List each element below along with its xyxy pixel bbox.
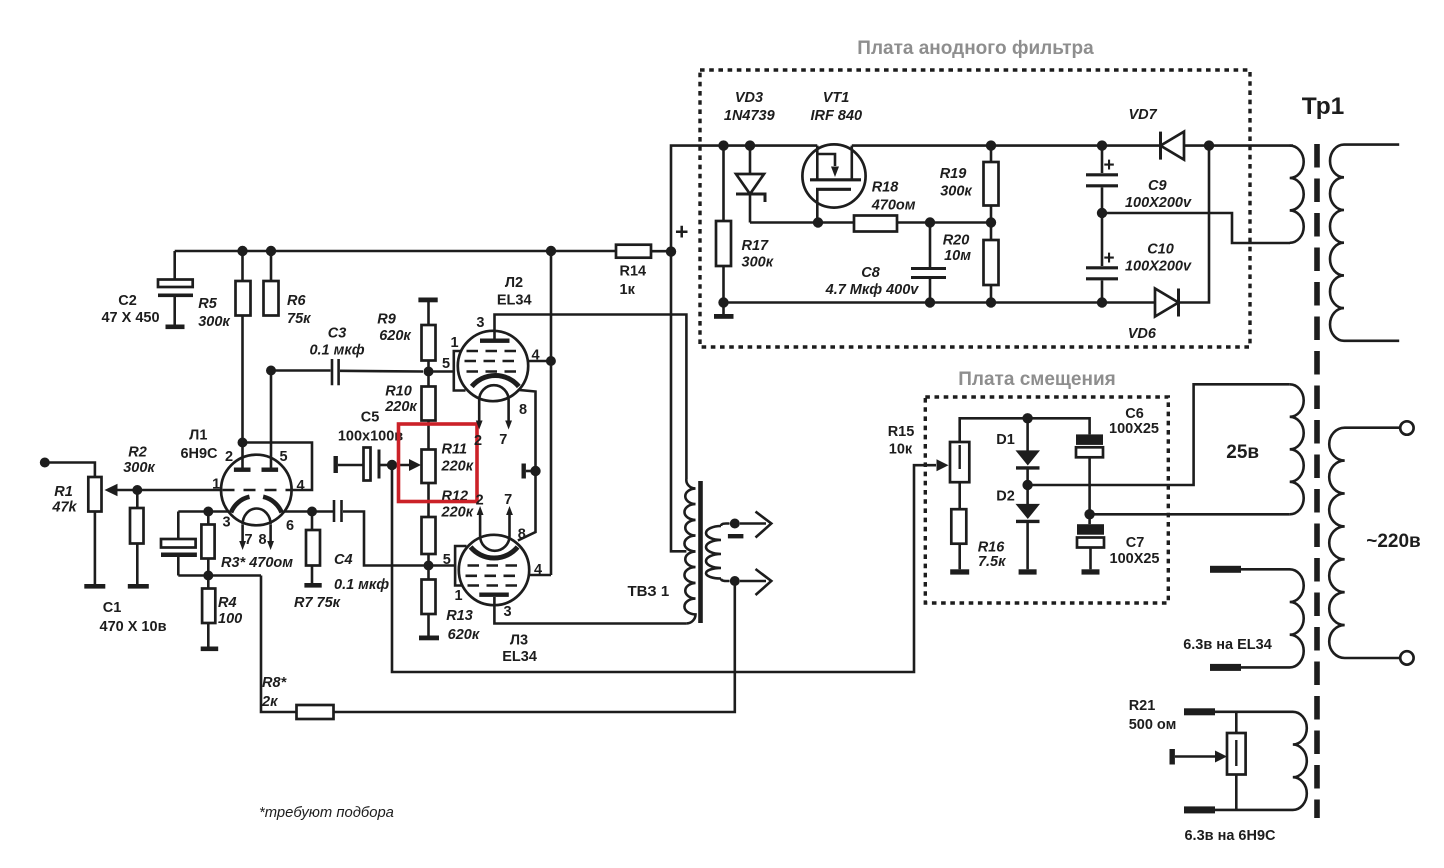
wire B+ top rail [175,250,616,253]
transformer Tp1 core (dashed) [1314,144,1320,818]
Tp1 mains primary winding (top right) [1330,145,1399,341]
svg-text:VD6: VD6 [1128,326,1157,342]
svg-text:R1: R1 [54,484,73,500]
svg-text:4: 4 [296,478,304,494]
svg-text:R21: R21 [1129,698,1156,714]
wire bias feed from C5 junction down and right [392,465,936,672]
svg-text:R15: R15 [888,424,915,440]
svg-text:C9: C9 [1148,178,1167,194]
bias board dashed box [925,397,1168,603]
svg-text:3: 3 [476,315,484,331]
svg-text:R13: R13 [446,608,473,624]
ground (R4) [201,647,219,652]
svg-text:ТВЗ 1: ТВЗ 1 [628,583,670,600]
grid bracket (L3 pins 1/5) [455,546,466,586]
svg-text:R8*: R8* [262,675,288,691]
svg-text:10м: 10м [944,248,971,264]
diode D2 [1026,485,1029,505]
ground (D2) [1019,569,1037,574]
MOSFET VT1 [802,144,865,207]
svg-text:300к: 300к [123,460,155,476]
svg-text:100: 100 [218,611,242,627]
wire C3 to R9/R10 junction [340,369,423,372]
svg-text:100X200v: 100X200v [1125,195,1192,211]
node rail/R17 [718,140,728,150]
svg-text:R18: R18 [872,180,900,196]
output arrow bottom [740,580,766,583]
wire board bottom rail [724,301,1156,304]
potentiometer R15 [950,442,969,482]
anode filter board dashed box [700,70,1250,347]
polarity bar below node [728,534,744,538]
svg-text:Плата смещения: Плата смещения [958,369,1115,390]
cathode arc (L3) [471,547,518,558]
ground (R1) [84,584,105,589]
svg-text:R17: R17 [742,238,770,254]
terminal circle ~220в bottom [1400,651,1413,664]
capacitor C7 (electrolytic) [1088,514,1091,524]
wire C5 terminal to plate [338,464,364,467]
node rail/R6 [266,246,276,256]
svg-text:300к: 300к [198,314,230,330]
terminal circle ~220в top [1400,421,1413,434]
node D1 top [1022,413,1032,423]
svg-text:7: 7 [245,532,253,548]
wire grid lead to L3 bracket [429,564,456,567]
svg-text:6.3в на 6Н9С: 6.3в на 6Н9С [1184,828,1276,844]
wire B+ riser to anode board [671,146,700,252]
svg-text:0.1 мкф: 0.1 мкф [334,577,389,593]
svg-text:R5: R5 [198,296,217,312]
wire R8 to secondary bottom [334,581,735,712]
highlight red box around R11/R12 [399,424,478,502]
svg-text:*требуют подбора: *требуют подбора [259,805,394,821]
capacitor C1 (electrolytic) [177,512,180,540]
node C10/bottom rail [1097,297,1107,307]
resistor R7 [311,512,314,531]
wire cathode pin 3 lead [178,510,228,513]
ground (board) [714,314,734,319]
svg-text:VD3: VD3 [735,90,763,106]
svg-text:6: 6 [286,518,294,534]
wire arrow into R15 [937,459,949,471]
svg-text:EL34: EL34 [497,292,532,308]
grid bracket (L2 pins 1/5) [454,351,466,391]
ground (R2) [128,584,149,589]
svg-text:100x100в: 100x100в [338,429,403,445]
R21 wiper terminal bar [1170,749,1175,765]
capacitor C3 [332,359,339,385]
svg-text:R2: R2 [128,445,147,461]
wire R11 wiper arrow [392,464,410,467]
wire midpoint to HV winding bottom [1102,213,1290,243]
wire midpoint to 25в winding bottom [1090,513,1290,516]
wire pin 8 lead (L2) [518,390,536,471]
node bottom rail/R17 [718,297,728,307]
Tp1 ~220в winding [1329,428,1400,658]
resistor R14 [616,245,651,258]
capacitor C5 (electrolytic) [364,448,371,481]
wire screen rail x=551 [550,251,553,575]
svg-text:~220в: ~220в [1366,531,1420,552]
zener diode VD3 [749,146,752,174]
capacitor C8 [929,223,932,268]
svg-text:C3: C3 [328,326,347,342]
wire L3 anode to output transformer [494,597,686,624]
node rail/R5 [237,246,247,256]
svg-text:47k: 47k [51,500,77,516]
svg-text:+: + [1104,248,1115,269]
heater dome (L1) [243,509,271,525]
node junction R12/R13/C4/grid L3 [424,561,434,571]
terminal bar 6.3в 6Н9С bottom [1184,806,1215,813]
svg-text:620к: 620к [379,328,411,344]
resistor R16 [958,482,961,509]
svg-text:8: 8 [519,402,527,418]
heater pin 8 arrow [269,525,272,542]
R21 wiper arrow [1175,755,1216,758]
svg-text:1N4739: 1N4739 [724,108,775,124]
resistor R18 [854,216,897,232]
diode VD6 [1155,289,1179,317]
svg-text:7: 7 [499,432,507,448]
svg-text:R14: R14 [620,264,647,280]
grid dashed rows (L2) [467,350,522,353]
svg-text:EL34: EL34 [502,649,537,665]
node rail/C9 [1097,140,1107,150]
wire feedback: cathode junction down to R8 [261,576,297,713]
node R18/C8 [925,217,935,227]
resistor R6 [270,251,273,281]
capacitor C9 (polarized) [1101,146,1104,173]
wire board top rail [700,144,1293,147]
wire TB3 secondary top [721,524,730,527]
heater dome (L2) [479,385,508,400]
capacitor C10 (polarized) [1101,213,1104,266]
svg-text:VD7: VD7 [1128,107,1157,123]
node secondary top [730,519,740,529]
anode bar pin 2 (L1) [234,468,251,472]
svg-text:C2: C2 [118,293,137,309]
node input terminal [40,458,50,468]
node rail/R19 [986,140,996,150]
wire pin 8 lead (L3) [518,471,536,541]
svg-text:C1: C1 [103,600,122,616]
transformer TB3 core [698,481,703,623]
node junction C5/R11 wiper/bias [387,460,397,470]
svg-text:470ом: 470ом [871,198,916,214]
capacitor C4 [334,500,342,522]
svg-text:100X200v: 100X200v [1125,259,1192,275]
node C9/C10 midpoint [1097,208,1107,218]
wire L2 anode to output transformer [495,315,687,480]
wire B+ center tap to TB3 [671,252,686,552]
wire grid lead pin1 to wiper junction [137,489,221,492]
terminal bar (cathode test point) [522,464,526,479]
svg-text:C6: C6 [1125,406,1144,422]
svg-text:0.1 мкф: 0.1 мкф [309,343,364,359]
svg-text:D2: D2 [996,489,1015,505]
cathode arc (L2) [472,375,519,386]
node junction R6/C3 [266,366,276,376]
wire TB3 secondary bottom [721,579,730,582]
wire R5 to pin 2 [241,443,244,468]
diode D1 [1026,418,1029,451]
resistor R17 [722,146,725,221]
svg-text:R3* 470ом: R3* 470ом [221,555,293,571]
heater dome (L3) [480,536,509,551]
heater pin 2 arrow (L3) [479,514,482,536]
svg-text:6Н9С: 6Н9С [180,446,218,462]
svg-text:C10: C10 [1147,242,1174,258]
svg-text:100X25: 100X25 [1110,551,1160,567]
svg-text:Плата анодного фильтра: Плата анодного фильтра [857,38,1094,59]
transformer TB3 primary winding [684,479,695,623]
node rail/right riser [1204,140,1214,150]
terminal bar 6.3в 6Н9С top [1184,708,1215,715]
svg-text:8: 8 [259,532,267,548]
svg-text:D1: D1 [996,432,1015,448]
anode bar pin 3 (L3) [479,593,509,597]
svg-text:R19: R19 [940,166,967,182]
cathode arc right (L1 pin 6) [263,497,282,513]
svg-text:C4: C4 [334,552,353,568]
svg-text:500 ом: 500 ом [1129,717,1177,733]
resistor R8* [297,705,334,719]
potentiometer R1 [88,477,101,512]
svg-text:Л3: Л3 [510,633,528,649]
wire pin 4 lead (L2) [528,360,551,363]
svg-text:C5: C5 [361,410,380,426]
heater pin 7 arrow [241,525,244,542]
ground (R7) [304,583,321,588]
potentiometer R21 [1235,712,1238,733]
node D1/D2 junction [1022,480,1032,490]
svg-text:4: 4 [532,348,540,364]
svg-text:+: + [675,219,688,245]
wire R1 wiper arrow [116,489,137,492]
node secondary bottom [730,576,740,586]
svg-text:VT1: VT1 [823,90,850,106]
svg-text:220к: 220к [384,399,417,415]
svg-text:75к: 75к [287,311,311,327]
Tp1 6.3в EL34 winding [1241,569,1304,667]
svg-text:1: 1 [450,335,458,351]
node rail/screen line [546,246,556,256]
svg-text:Л1: Л1 [189,428,207,444]
svg-text:100X25: 100X25 [1109,421,1159,437]
wire bias tap to 25в winding top [1028,384,1290,485]
resistor R19 [990,146,993,162]
svg-text:47 X 450: 47 X 450 [101,310,159,326]
anode bar pin 3 (L2) [480,339,510,343]
svg-text:Л2: Л2 [505,275,523,291]
node junction R9/R10/C3/grid L2 [424,367,434,377]
resistor R4 [207,576,210,589]
node C6/C7 midpoint [1084,509,1094,519]
resistor R12 [422,517,436,554]
svg-text:300к: 300к [940,184,972,200]
tube L2 envelope [458,331,528,401]
svg-text:Тр1: Тр1 [1302,93,1345,120]
capacitor C2 (electrolytic) [173,251,176,280]
anode bar pin 5 (L1) [262,468,279,472]
resistor R2 [136,490,139,508]
svg-text:1: 1 [212,477,220,493]
svg-text:220к: 220к [441,505,474,521]
node junction R7/C4 [307,507,317,517]
resistor R10 [427,372,430,387]
transformer TB3 secondary winding [706,526,721,579]
svg-text:3: 3 [503,604,511,620]
resistor R9 [427,302,430,325]
svg-text:10к: 10к [889,442,913,458]
node junction R3/C1 top [203,507,213,517]
node C8/bottom rail [925,297,935,307]
terminal bar 6.3в EL34 bottom [1210,664,1241,671]
svg-text:+: + [1104,155,1115,176]
svg-text:470 X 10в: 470 X 10в [100,619,167,635]
wire R6 to pin 5 [270,371,273,468]
wire R6 junction to C3 [271,369,331,372]
diode VD7 [1161,132,1185,160]
heater pin 2 arrow (L2) [478,400,481,422]
Tp1 25в winding [1290,384,1304,514]
tube L1 grid dashed line [223,489,292,492]
resistor R13 [427,566,430,580]
svg-text:1к: 1к [620,282,636,298]
wire R15 top to D1/C6 rail [960,418,1090,442]
wire cathode pin 6 lead [284,510,334,513]
svg-text:6.3в на EL34: 6.3в на EL34 [1183,637,1272,653]
potentiometer R11 [422,450,436,484]
wire gate line [750,221,854,224]
svg-text:2: 2 [225,449,233,465]
svg-text:8: 8 [518,527,526,543]
resistor R5 [241,251,244,281]
tube L3 envelope [459,535,529,605]
supply terminal (R9 top) [418,298,437,303]
wire cathode junction line [178,574,261,577]
Tp1 HV secondary winding [1290,146,1304,243]
svg-text:3: 3 [222,515,230,531]
svg-text:C7: C7 [1126,535,1145,551]
svg-text:220к: 220к [441,459,474,475]
svg-text:R6: R6 [287,293,306,309]
svg-text:R4: R4 [218,595,237,611]
svg-text:2: 2 [476,493,484,509]
svg-text:7.5к: 7.5к [978,554,1006,570]
svg-text:IRF 840: IRF 840 [811,108,863,124]
input terminal (C5) [334,456,338,473]
svg-text:R11: R11 [442,442,468,458]
svg-text:R10: R10 [385,384,412,400]
output arrow top [740,522,766,525]
capacitor C6 (electrolytic) [1076,434,1103,445]
heater pin 7 arrow (L2) [507,400,510,422]
ground (C7) [1082,569,1100,574]
svg-text:620к: 620к [448,627,480,643]
node R19/R20 [986,217,996,227]
grid dashed rows (L3) [468,564,523,567]
cathode arc left (L1 pin 3) [231,497,250,513]
wire pin 4 lead (L3) [529,574,551,577]
node junction R2/wiper [132,485,142,495]
node junction R5/pin2/pin4 [238,438,248,448]
node gate/R18 [813,217,823,227]
svg-text:5: 5 [442,356,450,372]
node rail/VD3 [745,140,755,150]
svg-text:R7 75к: R7 75к [294,595,341,611]
node junction pin4/screen rail [546,356,556,366]
Tp1 6.3в 6Н9С winding [1215,712,1307,810]
node R20/bottom rail [986,297,996,307]
svg-text:7: 7 [504,492,512,508]
ground (R13) [419,636,439,641]
svg-text:1: 1 [454,588,462,604]
svg-text:R9: R9 [377,312,396,328]
svg-text:2к: 2к [261,694,278,710]
svg-text:R20: R20 [943,233,970,249]
resistor R20 [984,240,999,285]
svg-text:5: 5 [443,552,451,568]
wire pin2 junction to pin 4 (direct coupling box) [243,443,313,491]
node R14/B+ riser [666,246,676,256]
wire input to R1 top [45,463,95,478]
terminal bar 6.3в EL34 top [1210,566,1241,573]
node junction R3/R4/R8 [203,571,213,581]
heater pin 7 arrow (L3) [508,514,511,536]
svg-text:C8: C8 [861,265,880,281]
resistor R3 [207,512,210,525]
wire R1 bottom to ground [94,512,97,585]
ground (C2) [166,325,185,330]
node junction cathodes L2/L3 [530,466,540,476]
svg-text:4: 4 [534,562,542,578]
wire grid lead to L2 bracket [429,370,454,373]
ground (R16) [950,569,969,574]
svg-text:2: 2 [474,433,482,449]
tube L1 envelope [221,455,292,526]
svg-text:25в: 25в [1226,442,1259,463]
svg-text:300к: 300к [742,255,774,271]
svg-text:4.7 Мкф 400v: 4.7 Мкф 400v [825,282,920,298]
svg-text:5: 5 [279,449,287,465]
